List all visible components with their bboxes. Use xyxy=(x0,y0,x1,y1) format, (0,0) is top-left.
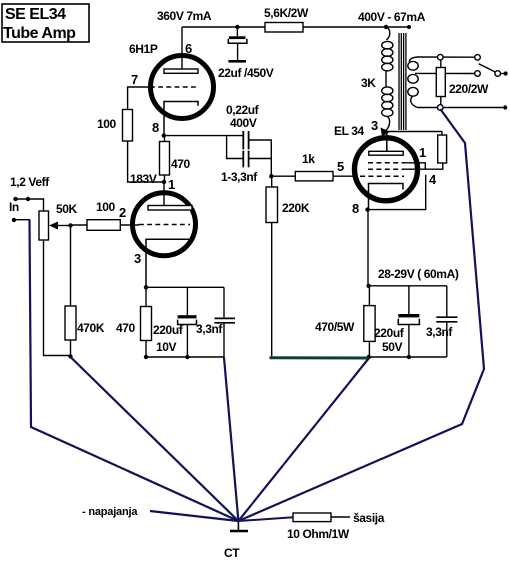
wire star ground navy from EL34 cathode rail xyxy=(238,358,369,521)
node wiper junction xyxy=(68,223,72,227)
capacitor C 3,3nf (V1b) xyxy=(196,287,235,357)
node terminal dot right top xyxy=(504,71,508,75)
svg-text:1k: 1k xyxy=(302,152,315,166)
wire B+ top rail xyxy=(182,26,409,28)
wire cathode top rail EL34 xyxy=(369,285,447,287)
switch throw contact upper xyxy=(475,55,481,61)
wire teal ground bus xyxy=(270,356,370,359)
node EL34 cathode network top xyxy=(366,284,370,288)
svg-text:28-29V ( 60mA): 28-29V ( 60mA) xyxy=(378,267,459,281)
resistor R 10 Ohm/1W xyxy=(287,513,350,541)
switch throw contact lower xyxy=(475,71,481,77)
node EL34 grid node xyxy=(269,174,273,178)
svg-text:470K: 470K xyxy=(77,321,105,335)
svg-text:4: 4 xyxy=(429,172,437,187)
capacitor C 1-3,3nf xyxy=(221,151,258,184)
wire tube1 plate lead xyxy=(181,27,183,70)
svg-text:7: 7 xyxy=(131,72,138,87)
svg-text:10 Ohm/1W: 10 Ohm/1W xyxy=(287,527,350,541)
svg-text:50K: 50K xyxy=(56,202,78,216)
node terminal end of B+ rail xyxy=(407,25,411,29)
capacitor C 3,3nf (EL34) xyxy=(426,286,457,357)
svg-text:360V 7mA: 360V 7mA xyxy=(157,9,212,23)
svg-text:220K: 220K xyxy=(282,201,310,215)
svg-text:470/5W: 470/5W xyxy=(315,320,355,334)
wire cathode bottom rail EL34 xyxy=(369,356,447,358)
wire input ground stub xyxy=(14,219,30,221)
wire star ground navy from transformer secondary xyxy=(238,109,484,521)
capacitor C 220uf 10V xyxy=(153,287,197,357)
svg-text:8: 8 xyxy=(352,201,359,216)
svg-text:0,22uf: 0,22uf xyxy=(226,103,260,117)
svg-text:5,6K/2W: 5,6K/2W xyxy=(264,6,309,20)
svg-text:470: 470 xyxy=(171,157,191,171)
wire right bracket of parallel caps xyxy=(250,140,272,176)
node anode junction with arrow xyxy=(381,128,391,137)
node terminal dot right bottom xyxy=(503,105,507,109)
svg-text:3,3nf: 3,3nf xyxy=(426,325,453,339)
wire pot bottom to ground bus xyxy=(44,240,71,356)
grid dashed V1b xyxy=(139,224,190,226)
node junction at 22uf tap xyxy=(235,25,239,29)
node 183V junction xyxy=(162,180,166,184)
svg-text:220uf: 220uf xyxy=(374,326,405,340)
svg-text:100: 100 xyxy=(97,117,117,131)
wire cathode top rail V1b xyxy=(146,286,224,288)
svg-text:šasija: šasija xyxy=(353,511,385,525)
capacitor C 220uf 50V xyxy=(374,286,419,357)
wire R100 bottom to 183V node xyxy=(128,141,164,182)
potentiometer 50K xyxy=(39,202,78,240)
svg-text:- napajanja: - napajanja xyxy=(82,506,138,518)
wire switch output stub xyxy=(501,73,505,75)
anode plate bar V1b xyxy=(163,182,165,206)
node open terminal bottom of 220/2W xyxy=(438,105,444,111)
transformer core xyxy=(399,33,406,130)
wire EL34 cathode down xyxy=(367,210,369,286)
svg-text:400V - 67mA: 400V - 67mA xyxy=(358,10,426,24)
wire star ground navy from 470K node xyxy=(71,357,239,521)
svg-text:3: 3 xyxy=(371,118,378,133)
transformer primary 3K xyxy=(361,27,393,131)
svg-text:10V: 10V xyxy=(156,340,177,354)
wire input to pot xyxy=(16,199,44,211)
grid g3 dashed row xyxy=(368,162,404,164)
wire g2 row to screen resistor xyxy=(404,163,443,169)
switch blade xyxy=(479,64,495,72)
tube V1b 6H1P lower triode xyxy=(119,182,196,287)
node ground bus junction left xyxy=(68,354,72,358)
wire secondary tap to switch xyxy=(418,72,475,74)
wire g3 row jog xyxy=(404,163,425,169)
switch common contact xyxy=(495,71,501,77)
capacitor C 22uf/450V xyxy=(218,27,274,80)
wire secondary bottom line xyxy=(418,107,504,109)
resistor R 470K xyxy=(65,226,105,357)
tube V1a 6H1P upper triode xyxy=(129,41,214,136)
svg-text:3K: 3K xyxy=(361,76,376,90)
svg-text:22uf /450V: 22uf /450V xyxy=(218,66,274,80)
svg-text:CT: CT xyxy=(224,546,240,560)
svg-text:6H1P: 6H1P xyxy=(129,42,158,56)
svg-text:2: 2 xyxy=(119,205,126,220)
svg-text:50V: 50V xyxy=(382,340,403,354)
svg-text:470: 470 xyxy=(116,321,136,335)
svg-text:EL 34: EL 34 xyxy=(334,124,365,138)
resistor R 470 (V1b cathode) xyxy=(116,287,152,357)
node junction at primary top xyxy=(384,25,388,29)
tube U1 EL34 xyxy=(355,132,418,210)
grid dashed V1a xyxy=(150,86,198,88)
svg-text:220/2W: 220/2W xyxy=(449,82,489,96)
svg-text:5: 5 xyxy=(337,159,344,174)
svg-text:3,3nf: 3,3nf xyxy=(196,322,223,336)
svg-text:3: 3 xyxy=(134,251,141,266)
node pin8 V1a junction xyxy=(162,133,166,137)
wire CT to 10 Ohm resistor xyxy=(238,517,293,521)
svg-text:1-3,3nf: 1-3,3nf xyxy=(221,170,258,184)
wire anode node to screen resistor xyxy=(386,131,442,133)
transformer secondary xyxy=(408,57,418,108)
resistor R 1k xyxy=(271,152,354,181)
resistor R 100 (V1b grid) xyxy=(71,200,140,230)
wire V1a cathode to coupling caps xyxy=(164,135,243,137)
node EL34 cathode junction xyxy=(365,207,369,211)
svg-text:220uf: 220uf xyxy=(153,323,184,337)
svg-text:400V: 400V xyxy=(230,116,257,130)
svg-text:SE EL34: SE EL34 xyxy=(5,6,66,23)
resistor R screen (to g2) xyxy=(438,132,447,164)
wire star ground navy from V1b cathode rail xyxy=(224,358,238,522)
svg-text:Tube Amp: Tube Amp xyxy=(3,25,76,42)
cathode V1a xyxy=(164,102,198,136)
wire pin4 drop to cathode rail xyxy=(368,175,426,210)
title box xyxy=(2,4,89,42)
svg-text:183V: 183V xyxy=(130,172,157,186)
svg-text:1: 1 xyxy=(168,177,175,192)
anode plate bar EL34 xyxy=(386,132,388,152)
node open terminal top of 220/2W xyxy=(438,54,444,60)
cathode V1b xyxy=(146,239,190,287)
resistor R 220K xyxy=(266,176,310,356)
node input terminals xyxy=(13,197,17,201)
resistor R 220/2W xyxy=(436,60,489,105)
resistor R 470 (V1a cathode) xyxy=(160,136,191,182)
wire secondary top to switch xyxy=(418,56,475,58)
svg-text:8: 8 xyxy=(152,120,159,135)
svg-text:6: 6 xyxy=(185,41,192,56)
wire napajanja feed xyxy=(150,511,238,521)
wire grid V1a to R100 xyxy=(128,87,150,110)
node bottom rail dots xyxy=(144,355,148,359)
svg-text:1: 1 xyxy=(419,145,426,160)
node V1b cathode junction xyxy=(144,285,148,289)
resistor 5,6K/2W xyxy=(264,6,309,32)
node bottom rail dots EL34 xyxy=(367,355,371,359)
wire star ground navy from input xyxy=(30,220,239,521)
svg-text:100: 100 xyxy=(96,200,116,214)
cathode EL34 xyxy=(369,184,404,210)
wire cathode bottom rail V1b xyxy=(146,356,224,358)
resistor R 100 (V1a grid) xyxy=(97,110,133,142)
grid g1 dashed row xyxy=(360,175,404,177)
grid g2 dashed row xyxy=(368,168,404,170)
wire left bracket of parallel caps xyxy=(227,136,243,159)
capacitor C 0,22uf 400V xyxy=(226,103,260,149)
svg-text:In: In xyxy=(9,200,19,214)
ground symbol at CT xyxy=(230,521,248,531)
svg-text:1,2 Veff: 1,2 Veff xyxy=(10,175,50,189)
anode plate bar V1a xyxy=(164,69,198,73)
resistor R 470/5W xyxy=(315,286,375,358)
